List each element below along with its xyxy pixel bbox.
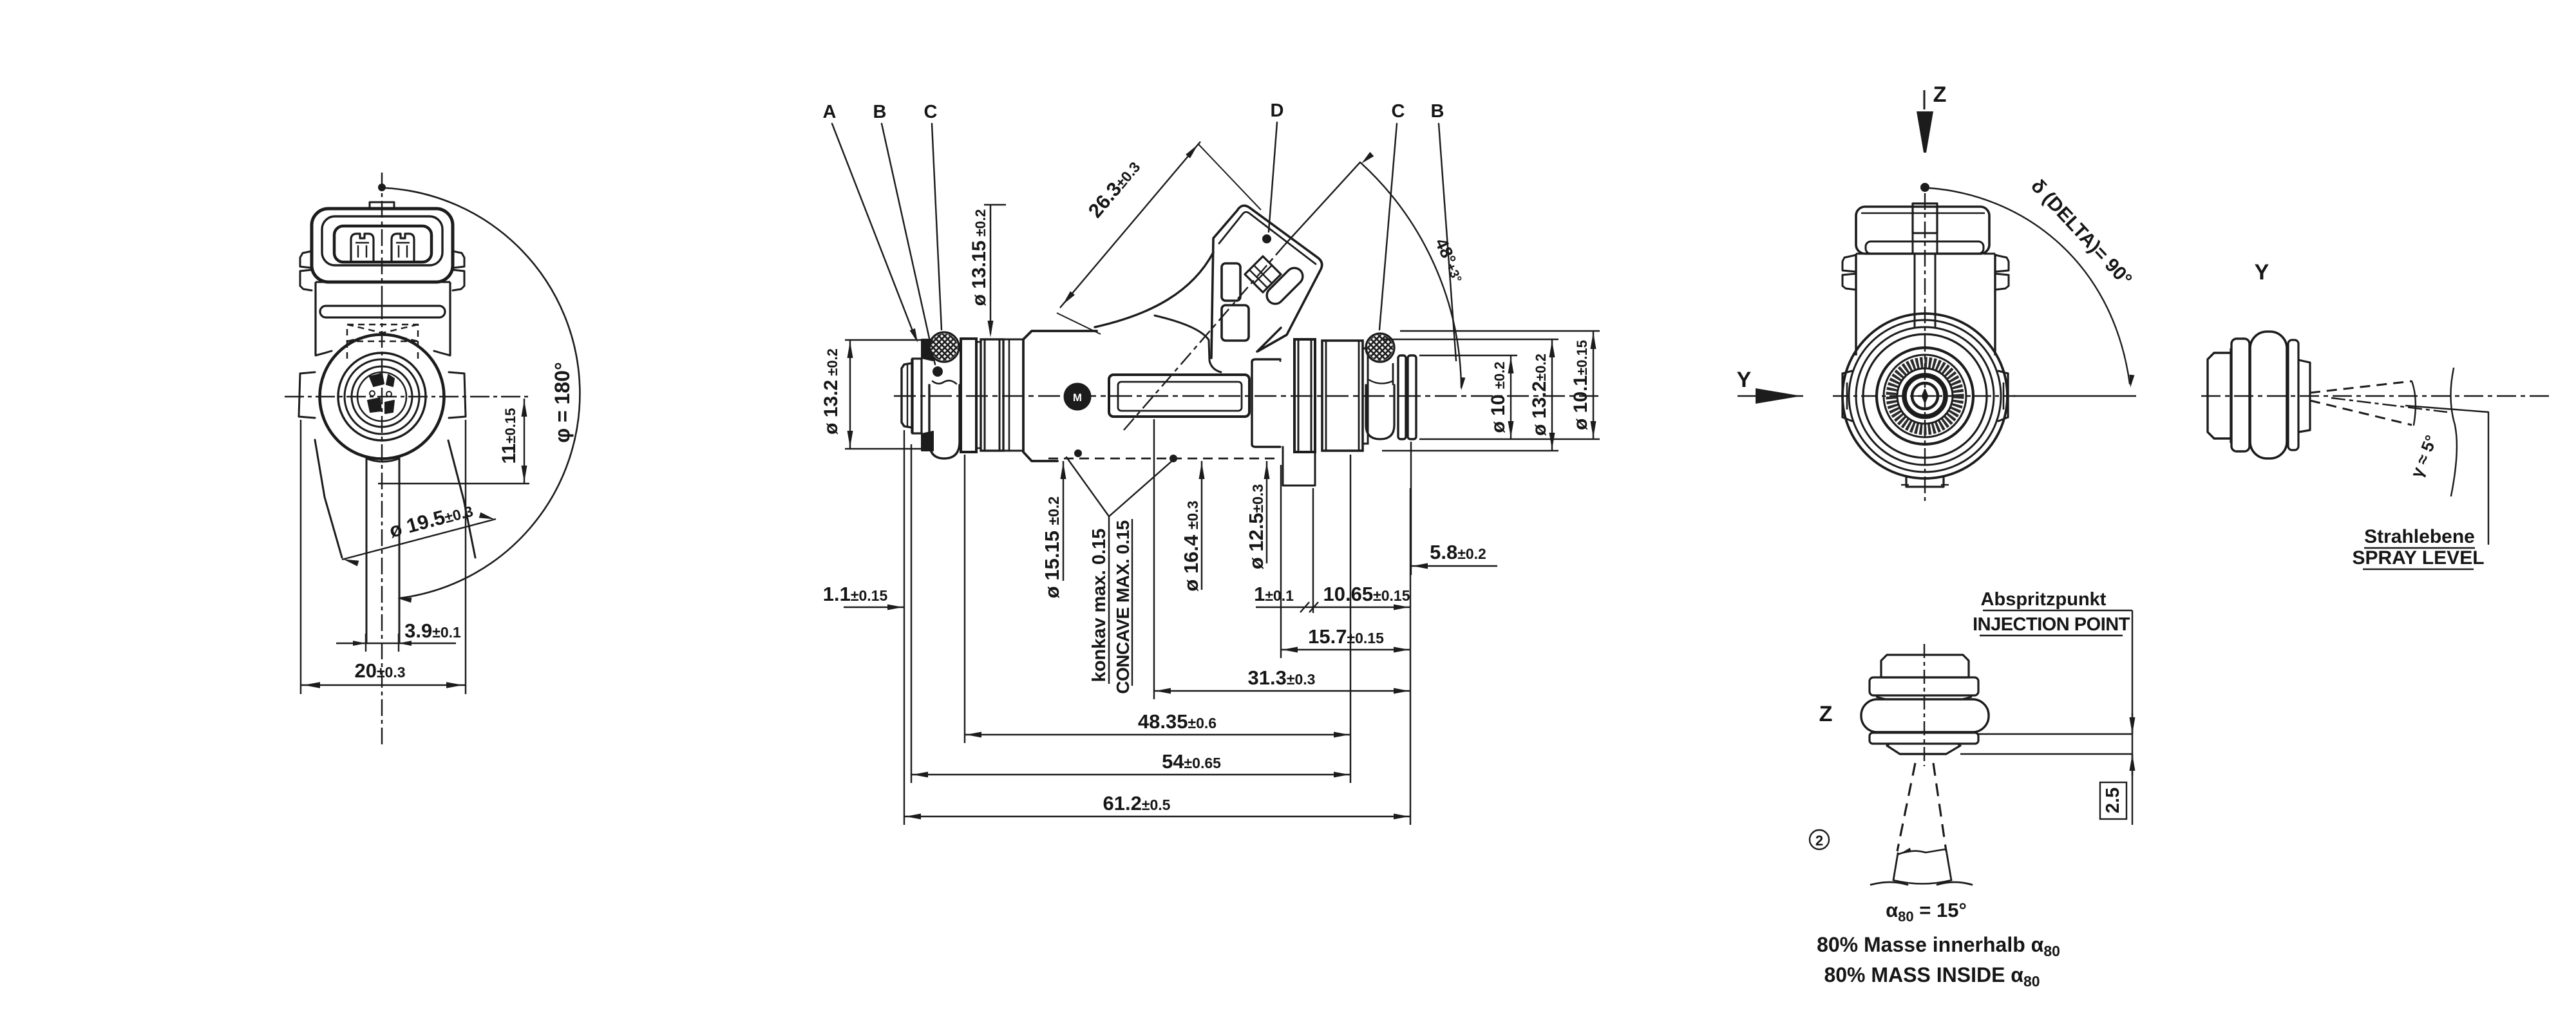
body to circle transition right <box>434 351 450 355</box>
hidden dashed bottom edge <box>1048 458 1280 460</box>
svg-text:2.5: 2.5 <box>2103 787 2123 813</box>
dia 10.1 dim line <box>1593 331 1594 439</box>
dia 13.15 dim line <box>990 205 991 334</box>
svg-text:B: B <box>1431 101 1444 122</box>
leader B right <box>1439 124 1456 361</box>
right ear upper <box>453 251 464 268</box>
connector top cap <box>370 202 394 209</box>
o-ring 2 hatched <box>1366 334 1394 362</box>
dia 16.4 leader <box>1201 461 1202 590</box>
inj tip <box>1887 744 1960 754</box>
rear outer circle <box>1842 314 2007 478</box>
left view horizontal centerline <box>285 396 529 397</box>
ext vertical x1792 <box>1153 419 1155 699</box>
spray wedge <box>1893 850 1951 880</box>
svg-text:Z: Z <box>1933 82 1947 107</box>
rear center cross <box>1922 390 1927 402</box>
Z axis tick <box>1924 90 1926 109</box>
body side right <box>449 282 451 355</box>
2.5 box <box>2100 782 2126 819</box>
taper to body <box>1003 339 1023 341</box>
svg-text:CONCAVE MAX. 0.15: CONCAVE MAX. 0.15 <box>1113 520 1133 694</box>
right terminal pin <box>392 234 414 262</box>
dia 15.15 leader <box>1063 461 1064 581</box>
left terminal pin <box>351 234 374 262</box>
11 dim line <box>524 399 525 484</box>
valve inner detail blobs <box>370 373 384 386</box>
26.3 dim line <box>1060 142 1200 308</box>
connector shell inner rim <box>322 216 442 265</box>
26.3 extension lower <box>1057 313 1101 334</box>
rear circle r64 <box>1884 355 1966 437</box>
svg-text:C: C <box>924 102 938 122</box>
terminal window upper <box>1222 263 1240 301</box>
19.5 dim line <box>342 519 496 560</box>
rear circle r118 <box>1849 320 2001 472</box>
nozzle tube left edge <box>366 457 368 643</box>
left ear lower <box>300 270 312 290</box>
svg-text:INJECTION POINT: INJECTION POINT <box>1973 614 2130 635</box>
small view centerline <box>2201 395 2549 397</box>
rear circle r107 <box>1856 327 1994 465</box>
20 dim extension right <box>465 420 466 694</box>
ring r58 <box>345 359 419 434</box>
terminal slot oval <box>1264 265 1306 307</box>
rear top cap inner line <box>1861 212 1985 214</box>
right ext line y682 <box>1419 438 1600 440</box>
hidden diagonals <box>347 325 418 341</box>
collar ring 1 <box>961 339 976 452</box>
dia 13.2 left ext top <box>845 339 921 341</box>
tip washer 1 <box>1398 355 1406 439</box>
arrow to upper line <box>2130 717 2136 734</box>
1.1 dim line <box>844 607 904 608</box>
dia 13.2 dim line <box>849 340 851 449</box>
arrow to lower line <box>2130 754 2136 771</box>
rear top dot <box>1921 184 1929 191</box>
spray cone lower dashed <box>2310 401 2412 425</box>
neck lines <box>976 341 981 343</box>
right ext line y514 <box>1400 330 1600 332</box>
right ext line y552 <box>1419 355 1517 356</box>
injector tip cap left <box>902 363 912 428</box>
boot left edge <box>1095 252 1213 327</box>
boot inner fillet <box>1155 316 1221 372</box>
rear ear top left <box>1842 255 1856 272</box>
rear knurl ring <box>1891 363 1958 429</box>
leader C <box>932 124 942 330</box>
3.9 dim line <box>336 643 456 644</box>
left hex flat <box>299 372 315 418</box>
ext vertical x1989 <box>1280 465 1282 658</box>
right step <box>1363 348 1368 444</box>
window inner <box>1118 382 1242 411</box>
inj point line lower <box>1960 753 2132 755</box>
connector shell outer <box>312 209 453 282</box>
o-ring 1 lower cup <box>929 385 960 458</box>
inj step lines <box>1876 697 1886 699</box>
dia 12.5 leader <box>1266 461 1267 563</box>
svg-text:Y: Y <box>1737 368 1752 392</box>
neck right of body <box>1252 362 1280 447</box>
ext vertical x1404 <box>904 430 905 825</box>
o-ring 2 groove sides <box>1367 363 1369 385</box>
rear horizontal centerline <box>1833 395 2016 397</box>
svg-text:80% Masse innerhalb α80: 80% Masse innerhalb α80 <box>1817 933 2060 959</box>
spray axis dashdot <box>2331 398 2447 412</box>
rear ring r32 bold <box>1904 375 1946 417</box>
svg-text:A: A <box>823 102 837 122</box>
rear ear mid left <box>1841 373 1843 417</box>
body hole filled <box>1065 384 1090 410</box>
small view lobe <box>2250 332 2287 458</box>
leader B <box>882 124 935 364</box>
26.3 extension upper <box>1198 144 1261 210</box>
leader A <box>832 124 915 337</box>
small view ring 2 <box>2288 340 2298 450</box>
boot right edge <box>1257 328 1281 352</box>
right collar 2 <box>1322 341 1363 451</box>
ext vertical x2190 <box>1410 488 1411 825</box>
body to circle transition left <box>316 351 332 355</box>
dia 13.2 left ext bottom <box>845 448 931 449</box>
window outer <box>1109 375 1249 417</box>
left view vertical centerline <box>381 173 383 303</box>
rear inner circle r20 <box>1912 383 1938 409</box>
leader D <box>1269 122 1277 232</box>
o-ring 1 hatched <box>929 332 959 362</box>
tip washer 2 <box>1408 355 1416 439</box>
svg-text:Abspritzpunkt: Abspritzpunkt <box>1981 589 2107 610</box>
svg-text:Y: Y <box>2255 260 2269 285</box>
5.8 dim line <box>1411 565 1497 567</box>
svg-text:SPRAY LEVEL: SPRAY LEVEL <box>2352 547 2484 569</box>
svg-text:M: M <box>1073 391 1082 404</box>
31.3 dim line <box>1154 690 1410 692</box>
neck step tray <box>1283 447 1315 485</box>
11 dim extension line <box>378 483 529 484</box>
connector axis dashed <box>1124 245 1285 430</box>
svg-text:D: D <box>1271 100 1284 121</box>
rear circle r75 bold <box>1877 348 1973 444</box>
61.2 dim line <box>904 816 1410 817</box>
svg-text:C: C <box>1392 101 1405 122</box>
leader D dot <box>1263 235 1271 243</box>
20 dim line <box>301 684 466 686</box>
inj lobe <box>1861 699 1989 732</box>
dia 10 dim line <box>1510 355 1511 439</box>
o-ring 2 lower cup <box>1366 385 1394 439</box>
rear circle r43 <box>1897 368 1953 424</box>
terminal window lower <box>1222 305 1249 341</box>
inj view centerline <box>1924 644 1925 766</box>
tube top arcs <box>366 458 399 462</box>
ring r38 <box>357 372 406 421</box>
shoulder dark bottom <box>922 431 933 451</box>
leader C right <box>1379 124 1397 330</box>
svg-text:80% MASS INSIDE α80: 80% MASS INSIDE α80 <box>1824 963 2040 990</box>
ring r68 <box>338 353 426 440</box>
o-ring 1 groove squiggle <box>933 381 956 384</box>
middle view axis centerline <box>894 395 1598 397</box>
connector keyway opening <box>334 226 431 262</box>
spray dashed left <box>1897 763 1915 851</box>
connector axis extension <box>1285 162 1360 245</box>
tip disc <box>913 359 922 433</box>
1 dim line <box>1256 607 1314 608</box>
rear top cap <box>1856 207 1989 254</box>
rear tube <box>1913 203 1937 233</box>
svg-text:2: 2 <box>1815 833 1823 849</box>
svg-text:Strahlebene: Strahlebene <box>2364 526 2475 547</box>
ext vertical x2039 <box>1312 488 1314 613</box>
rear body sides <box>1855 254 1857 355</box>
left view top reference dot <box>379 184 385 191</box>
small view ring 1 <box>2231 339 2249 451</box>
konkav underline <box>1108 516 1110 684</box>
right ext line y527 <box>1382 339 1558 340</box>
54 dim line <box>911 774 1350 775</box>
inj flange <box>1870 677 1978 695</box>
inj point line upper <box>1978 733 2132 735</box>
48 deg arc <box>1360 162 1461 388</box>
svg-text:α80 = 15°: α80 = 15° <box>1886 899 1967 925</box>
rear bottom tube <box>1906 476 1944 487</box>
dia 13.2 right dim line <box>1551 339 1553 451</box>
shoulder dark top <box>922 339 933 361</box>
body slot <box>320 306 445 317</box>
svg-text:konkav max. 0.15: konkav max. 0.15 <box>1089 529 1110 683</box>
hidden dot 1 <box>1075 450 1082 457</box>
delta arc <box>1929 188 2130 384</box>
rear vertical centerline <box>1924 193 1926 501</box>
phi=180 arc <box>386 188 580 598</box>
svg-text:Z: Z <box>1819 702 1833 726</box>
20 dim extension left <box>300 420 301 694</box>
ext vertical x1415 <box>911 444 912 783</box>
injection leader vertical <box>2132 610 2133 825</box>
skirt left edge <box>315 440 342 558</box>
rear top bar <box>1866 241 1984 254</box>
svg-text:B: B <box>873 102 887 122</box>
15.7 dim line <box>1281 649 1410 650</box>
main body <box>1023 339 1057 461</box>
ring r47 <box>352 366 412 427</box>
small view cap <box>2208 353 2231 438</box>
ext vertical x1498 <box>964 455 965 743</box>
hidden dot 2 <box>1170 455 1177 462</box>
right ext line y700 <box>1382 450 1558 451</box>
main outer circle <box>320 335 444 459</box>
right ear lower <box>453 270 464 290</box>
collar ring 2 <box>981 339 1003 451</box>
right hex flat <box>449 372 466 418</box>
inj top cap <box>1881 655 1969 677</box>
inj ring <box>1870 733 1978 744</box>
small view tip <box>2298 360 2310 432</box>
10.65 dim line <box>1314 607 1410 608</box>
Z axis arrow <box>1917 111 1933 153</box>
ext vertical x2097 <box>1350 455 1351 783</box>
rear ear top right <box>1995 255 2009 272</box>
wedge bottom arcs <box>1871 882 1908 885</box>
skirt right edge <box>448 440 475 558</box>
48.35 dim line <box>965 734 1350 735</box>
body side left <box>314 282 316 355</box>
right collar 1 <box>1294 339 1315 452</box>
concave underline <box>1132 519 1133 686</box>
hidden connector rect dashed <box>347 325 418 341</box>
rear circle r96 <box>1863 334 1987 458</box>
shell bottom line <box>316 281 450 283</box>
Y arrow <box>1738 395 1803 397</box>
rear axis extension right <box>2012 395 2136 397</box>
5.8 vertical ext <box>1410 442 1412 575</box>
connector housing outline <box>1211 205 1322 358</box>
rear ear mid right <box>2007 373 2009 417</box>
terminal block rotated <box>1245 256 1281 292</box>
gamma angle tick <box>2412 381 2416 425</box>
circled 2 <box>1810 830 1829 849</box>
wavy vertical at spray end <box>2450 368 2456 496</box>
spray cone upper dashed <box>2310 381 2412 393</box>
nozzle tube right edge <box>399 457 401 643</box>
spray dashed right <box>1933 763 1946 851</box>
leader B dot <box>933 367 942 376</box>
connector cap inner band <box>1219 212 1316 264</box>
spray level leader <box>2406 406 2488 544</box>
svg-text:φ = 180°: φ = 180° <box>551 362 574 443</box>
left ear upper <box>300 251 312 268</box>
konkav leader V <box>1066 457 1173 516</box>
